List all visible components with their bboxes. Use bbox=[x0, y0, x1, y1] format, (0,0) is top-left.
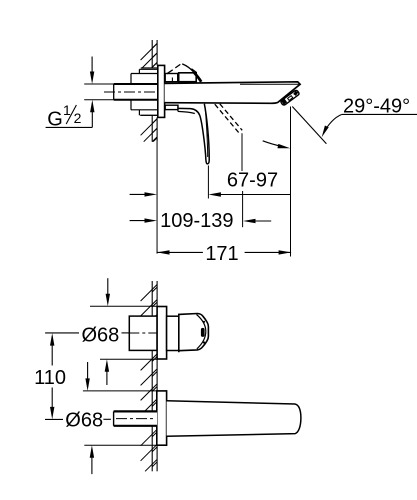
cartridge cover rect A bbox=[165, 74, 178, 82]
supply pipe G1/2 bbox=[114, 84, 158, 100]
spout (bottom view) bbox=[167, 401, 301, 437]
dome face arc bbox=[197, 315, 206, 349]
lever raised position dashed bbox=[167, 70, 173, 74]
diameter 68 lower label bbox=[45, 418, 63, 420]
spout body bbox=[165, 82, 301, 104]
wall hatching top bbox=[141, 44, 158, 61]
svg-text:G: G bbox=[47, 108, 63, 130]
lever open projection dashed bbox=[215, 104, 239, 133]
dome slot bbox=[201, 328, 205, 337]
upper flange bbox=[157, 307, 167, 360]
aerator at spout tip bbox=[281, 90, 299, 105]
flow direction curved arrow bbox=[263, 141, 282, 147]
svg-text:Ø68: Ø68 bbox=[65, 410, 103, 432]
concealed mixer box bbox=[129, 316, 157, 350]
valve stem under spout bbox=[165, 105, 178, 109]
lever closed front edge bbox=[182, 64, 194, 72]
svg-text:67-97: 67-97 bbox=[227, 170, 278, 192]
cartridge neck bbox=[167, 316, 179, 350]
flange edge extension lines bbox=[90, 305, 157, 307]
wall hatching bottom bbox=[141, 119, 158, 136]
diameter 68 upper label bbox=[45, 332, 79, 334]
wall hatching (bottom fig) bbox=[141, 285, 158, 302]
svg-text:109-139: 109-139 bbox=[160, 210, 233, 232]
wall (top figure) bbox=[151, 40, 153, 68]
wall (bottom figure) bbox=[151, 281, 153, 316]
spout supply pipe bbox=[114, 411, 158, 425]
pipe centerline bbox=[104, 91, 157, 93]
extension lines (top dims) bbox=[156, 142, 158, 254]
svg-text:2: 2 bbox=[74, 110, 82, 126]
svg-text:29°-49°: 29°-49° bbox=[343, 95, 410, 117]
water stream line bbox=[292, 107, 326, 144]
svg-text:1: 1 bbox=[63, 102, 71, 118]
svg-text:Ø68: Ø68 bbox=[81, 324, 119, 346]
lever handle bbox=[178, 104, 209, 164]
aerator dark end 1 bbox=[282, 100, 285, 103]
extension line at 109 position bbox=[241, 133, 243, 171]
svg-text:171: 171 bbox=[205, 243, 238, 265]
cartridge dome bbox=[179, 314, 209, 353]
aerator notch bbox=[288, 96, 293, 101]
dim 109-139 bbox=[130, 220, 153, 222]
dim 110 bbox=[51, 337, 53, 366]
cartridge cover rect B bbox=[179, 73, 197, 82]
svg-text:110: 110 bbox=[34, 367, 66, 389]
dim 171 bbox=[157, 251, 203, 253]
angle label 29-49 bbox=[342, 113, 417, 115]
spout inner top line bbox=[240, 83, 299, 85]
G 1/2 dimension arrows bbox=[91, 57, 93, 81]
G 1/2 label bbox=[46, 126, 93, 128]
lower flange bbox=[157, 391, 167, 445]
aerator dark end 2 bbox=[294, 92, 297, 94]
dim 67-97 bbox=[130, 193, 153, 195]
box centerline bbox=[129, 332, 157, 334]
flange dim arrows bbox=[107, 278, 109, 302]
lower pipe centerline bbox=[116, 418, 156, 420]
concealed body behind wall bbox=[139, 68, 157, 70]
escutcheon flange bbox=[158, 65, 165, 117]
